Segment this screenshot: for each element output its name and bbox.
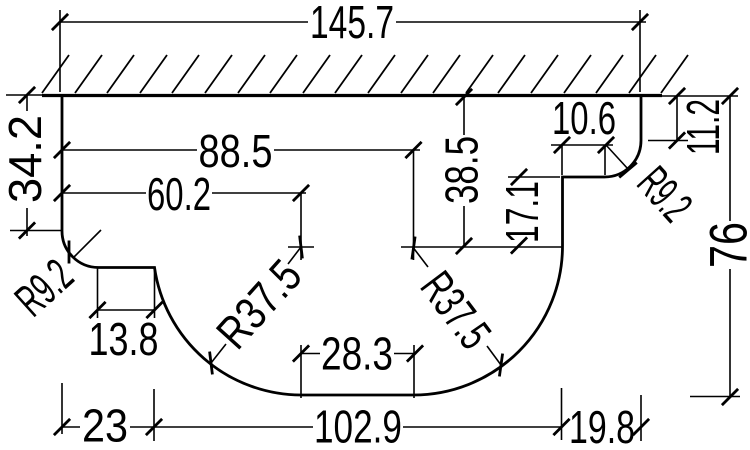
dimension 102.9 dimension line xyxy=(403,426,561,428)
dimension 38.5 dimension line xyxy=(463,96,465,246)
horizontal centre line through arc centres xyxy=(401,246,562,248)
radius R9.2 left tick mark xyxy=(68,241,71,264)
section hatching of ceiling band xyxy=(42,55,688,93)
dimension 10.6 dimension line xyxy=(551,144,613,146)
svg-text:13.8: 13.8 xyxy=(89,313,159,365)
dimension 60.2 tick marks xyxy=(54,185,70,201)
radius R37.5 right tick marks xyxy=(412,237,415,260)
dimension 10.6 extension lines xyxy=(562,145,605,175)
radius R37.5 left tick marks xyxy=(210,352,213,375)
dimension 76 extension line bottom xyxy=(690,396,740,398)
dimension 34.2 dimension line xyxy=(26,95,28,236)
dimension 88.5 tick marks xyxy=(54,142,70,158)
top face line (thick bottom edge of hatched band) xyxy=(42,94,662,97)
svg-text:60.2: 60.2 xyxy=(147,168,211,220)
dimension 60.2 dimension line xyxy=(62,192,306,194)
dimension 76 tick marks xyxy=(722,88,738,104)
dimension 28.3 tick marks xyxy=(293,345,309,361)
dimension 76 dimension line xyxy=(729,96,731,397)
dimension 17.1 extension line top xyxy=(508,176,560,178)
radius R37.5 right leader line xyxy=(414,248,502,365)
svg-text:76: 76 xyxy=(700,222,750,268)
svg-text:102.9: 102.9 xyxy=(314,400,402,450)
dimension 17.1 tick marks xyxy=(511,169,527,185)
dimension 13.8 tick marks xyxy=(89,302,105,318)
svg-text:19.8: 19.8 xyxy=(569,401,635,450)
svg-text:34.2: 34.2 xyxy=(0,115,51,203)
radius R9.2 left leader line xyxy=(74,230,101,257)
dimension 145.7 extension lines xyxy=(60,10,640,92)
svg-text:11.2: 11.2 xyxy=(677,99,729,155)
dimension 102.9 tick mark xyxy=(553,419,569,435)
radius R9.2 right tick mark xyxy=(619,163,637,178)
dimension 11.2 dimension line xyxy=(676,96,678,141)
dimension 88.5 dimension line xyxy=(62,149,420,151)
dimension 28.3 extension lines xyxy=(301,345,414,398)
dimension 145.7 dimension line xyxy=(60,21,646,23)
radius R37.5 left leader line xyxy=(211,247,301,363)
svg-text:23: 23 xyxy=(82,399,128,450)
svg-text:17.1: 17.1 xyxy=(496,181,548,243)
dimension 13.8 dimension line xyxy=(98,309,155,311)
bottom chain extension lines xyxy=(62,383,641,441)
svg-text:28.3: 28.3 xyxy=(321,327,393,379)
dimension 23 dimension line xyxy=(62,426,313,428)
dimension 28.3 dimension line xyxy=(301,353,415,355)
radius R9.2 right leader line xyxy=(606,145,628,169)
dimension 145.7 tick marks xyxy=(52,14,68,30)
dimension 10.6 tick marks xyxy=(554,137,570,153)
profile outline of moulding cross-section xyxy=(62,94,641,395)
svg-text:38.5: 38.5 xyxy=(435,136,487,204)
extension line from 88.5 down to right arc centre xyxy=(413,150,415,260)
dimension 13.8 extension lines xyxy=(98,268,155,318)
dimension 23 tick marks xyxy=(54,419,70,435)
dimension 19.8 tick mark xyxy=(633,419,649,435)
left arc centre cross dash xyxy=(288,246,314,248)
svg-text:10.6: 10.6 xyxy=(552,92,616,144)
dimension 34.2 extension lines xyxy=(6,95,62,231)
dimension 11.2 extension lines xyxy=(648,96,738,141)
dimension 11.2 tick marks xyxy=(669,88,685,104)
extension line from 60.2 down to left arc centre xyxy=(300,193,302,260)
dimension 34.2 tick marks xyxy=(19,87,35,103)
svg-text:145.7: 145.7 xyxy=(310,0,394,48)
dimension 38.5 tick marks xyxy=(456,89,472,105)
